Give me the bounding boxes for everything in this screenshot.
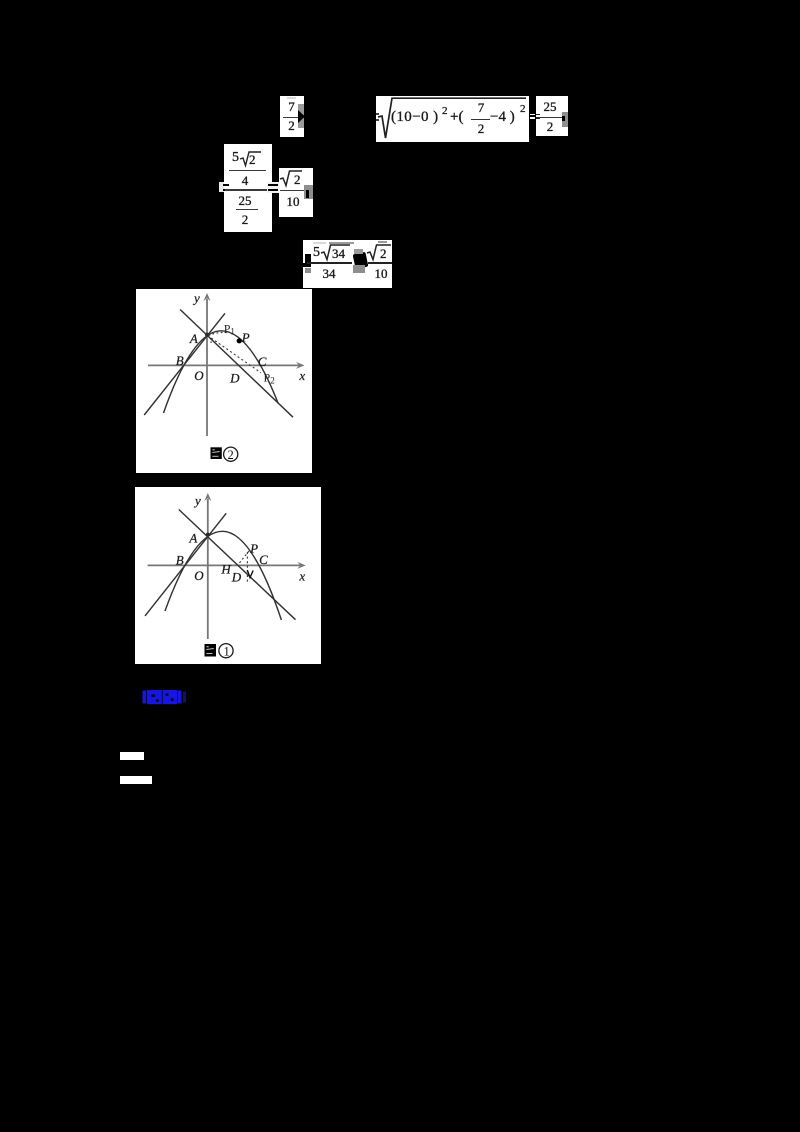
comma — [306, 190, 310, 198]
svg-text:D: D — [231, 569, 242, 584]
caption circled 1 — [219, 644, 233, 659]
leading equals fragment — [376, 113, 379, 115]
dotted segment P to D area — [239, 551, 249, 564]
sqrt 2 right — [367, 244, 392, 261]
point A junction blob — [206, 533, 210, 537]
dotted arc A to P1 — [209, 332, 230, 335]
svg-text:H: H — [220, 562, 231, 577]
dotted vertical from P — [246, 552, 248, 584]
gray selection square with comma — [562, 112, 569, 127]
black cursor arrow — [298, 109, 305, 124]
4 — [233, 173, 257, 189]
x-axis — [148, 564, 300, 566]
svg-text:C: C — [259, 552, 268, 567]
equals between (white patch + black =) — [267, 182, 279, 193]
blue bracket right — [178, 691, 182, 704]
fraction 7/2 — [285, 100, 298, 113]
10 — [371, 266, 391, 282]
numerator: 5 sqrt2 — [232, 150, 239, 166]
svg-text:x: x — [298, 569, 305, 584]
10 — [280, 194, 306, 210]
mini fraction 7/2 — [475, 101, 487, 114]
equals fragment (black, inside box) — [536, 114, 540, 116]
equation fragment 7/2 box — [280, 96, 304, 137]
gray square under left blob — [305, 268, 311, 273]
svg-text:O: O — [194, 568, 204, 583]
svg-text:1: 1 — [224, 644, 230, 658]
sqrt2/10 box — [279, 168, 313, 217]
line BA ascending — [144, 313, 225, 415]
+ ( — [450, 109, 463, 126]
svg-text:B: B — [176, 353, 184, 368]
bar over 4 — [229, 170, 266, 171]
point P dot — [237, 338, 242, 343]
blue glyph block 1 — [147, 690, 162, 704]
v mark near D — [247, 570, 253, 578]
gray selection square with comma — [304, 185, 313, 200]
fraction bar 2 — [368, 262, 392, 264]
(10-0) — [391, 109, 439, 126]
svg-text:A: A — [188, 530, 197, 545]
gray selection strip — [298, 104, 304, 128]
sup 2 — [520, 103, 526, 115]
equals fragment left — [223, 184, 229, 186]
blue glyph block 2 — [163, 690, 178, 704]
svg-text:C: C — [258, 354, 267, 369]
sup 2 — [442, 105, 448, 117]
caption circled 2 — [224, 447, 238, 462]
center blob (approx-not-equal mark) — [353, 252, 369, 269]
bar under 25 — [236, 209, 258, 210]
svg-text:2: 2 — [228, 448, 234, 462]
parabola — [164, 331, 279, 413]
equation sqrt box — [376, 96, 529, 142]
-4) — [490, 109, 515, 126]
comma — [562, 116, 565, 121]
svg-text:P2: P2 — [264, 371, 275, 386]
left equals fragment (black blob) — [305, 254, 311, 263]
leading equals (white patch + black bars) — [219, 182, 224, 192]
y-axis — [206, 299, 208, 436]
svg-text:x: x — [298, 368, 305, 383]
equation 25/2 box — [536, 96, 568, 136]
svg-text:D: D — [229, 371, 240, 386]
fraction bar — [280, 190, 306, 191]
svg-text:P: P — [249, 541, 258, 556]
parabola — [165, 531, 281, 620]
dotted line A to P2 — [208, 336, 262, 373]
sqrt 2 numerator — [280, 170, 303, 187]
svg-text:y: y — [193, 493, 201, 508]
gray square under center blob — [353, 265, 365, 273]
line AD descending — [179, 510, 296, 620]
line AD descending — [180, 310, 293, 418]
5sqrt34/34 vs sqrt2/10 box — [303, 240, 392, 288]
svg-text:P1: P1 — [224, 322, 235, 337]
svg-text:y: y — [192, 291, 200, 306]
34 denominator — [313, 266, 345, 282]
radical sign — [376, 96, 529, 142]
faint top smudge — [287, 97, 296, 99]
fraction 25/2 — [539, 100, 561, 113]
caption square (tu character) — [211, 447, 222, 459]
svg-text:B: B — [176, 553, 184, 568]
dash 1 — [120, 752, 144, 760]
5 sqrt 34 — [313, 245, 320, 261]
x-axis — [148, 364, 299, 366]
dash 2 — [120, 776, 152, 784]
small dotted tick below A — [210, 338, 213, 344]
fraction bar 1 — [307, 262, 352, 264]
svg-text:P: P — [241, 330, 250, 345]
svg-text:O: O — [194, 368, 204, 383]
svg-text:A: A — [189, 331, 198, 346]
complex fraction box — [224, 144, 272, 232]
point A junction blob — [205, 333, 209, 337]
25 — [233, 193, 257, 209]
y-axis — [207, 499, 209, 639]
2 — [233, 212, 257, 228]
line BA ascending — [145, 513, 226, 616]
caption square (tu character) — [205, 644, 217, 657]
white equals between boxes — [530, 114, 536, 116]
blue bracket left — [143, 691, 147, 704]
gray smudge top — [329, 242, 354, 245]
main bar — [225, 189, 271, 190]
